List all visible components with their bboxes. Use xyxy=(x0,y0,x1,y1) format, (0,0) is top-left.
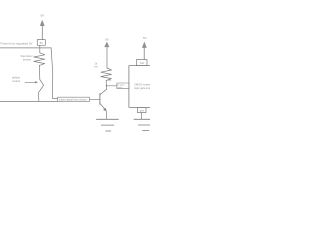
wire: box4 to ground xyxy=(141,113,143,120)
transistor Q1 emitter lead with arrow xyxy=(100,104,106,112)
IC U1 box (CMOS inverter, clipped at right edge) xyxy=(129,66,153,108)
svg-text:5V: 5V xyxy=(40,41,43,45)
label R2 value (2 tiny lines) xyxy=(95,62,99,68)
svg-text:gnd: gnd xyxy=(140,110,145,113)
svg-text:5V: 5V xyxy=(143,36,147,40)
junction node collector xyxy=(106,85,107,86)
wire: box1 to bus xyxy=(39,45,41,47)
wire: R1 lead down with wiper kink xyxy=(39,65,44,101)
net label box3: to CMOS input xyxy=(117,83,129,89)
wire: bus down to resistor R1 xyxy=(39,48,41,53)
wire: resistor R2 lead to junction xyxy=(105,81,107,86)
svg-text:output signal from sensor: output signal from sensor xyxy=(59,99,87,102)
power supply V2 arrow xyxy=(105,42,109,47)
box4: IC ground pin terminal xyxy=(137,107,146,112)
wire: net box to transistor base xyxy=(90,99,100,101)
svg-text:sensor: sensor xyxy=(23,57,31,61)
wire: bottom left horizontal to net box xyxy=(0,100,58,102)
power supply V1 arrow xyxy=(40,20,44,39)
label: thermistor annotation (2 lines) xyxy=(21,54,33,61)
power supply V3 arrow xyxy=(142,42,146,59)
wire: emitter down to ground xyxy=(105,111,107,119)
label arrow pointing to wiper xyxy=(25,81,38,83)
resistor R2 xyxy=(101,68,112,81)
svg-text:Power from regulated 5V: Power from regulated 5V xyxy=(1,41,33,45)
net label box: signal from controller xyxy=(58,97,90,101)
ground GND1 xyxy=(96,119,118,131)
svg-text:5V: 5V xyxy=(105,38,109,42)
box6: IC power pin terminal xyxy=(136,60,147,66)
svg-text:Vdd: Vdd xyxy=(140,62,145,65)
svg-text:5V: 5V xyxy=(40,14,44,18)
transistor Q1 collector lead xyxy=(100,86,106,95)
box supply terminal B1 xyxy=(37,40,45,46)
wire: horizontal bus at y=47.7 xyxy=(0,47,51,49)
ground GND2 (clipped at right edge) xyxy=(134,119,150,130)
wire: R2 top to supply arrow xyxy=(106,47,108,68)
label: airflow control annotation (2 lines) xyxy=(12,76,20,83)
svg-text:input: input xyxy=(118,86,123,89)
wire: junction to box3 xyxy=(106,85,117,87)
resistor R1 (thermistor) xyxy=(34,53,45,66)
transistor Q1 base bar xyxy=(99,94,101,105)
svg-text:to gate: to gate xyxy=(118,84,125,87)
svg-text:res: res xyxy=(95,65,99,68)
svg-text:logic gate input: logic gate input xyxy=(134,86,150,90)
wire: right vertical branch from bus xyxy=(51,48,58,99)
svg-text:control: control xyxy=(12,79,20,83)
